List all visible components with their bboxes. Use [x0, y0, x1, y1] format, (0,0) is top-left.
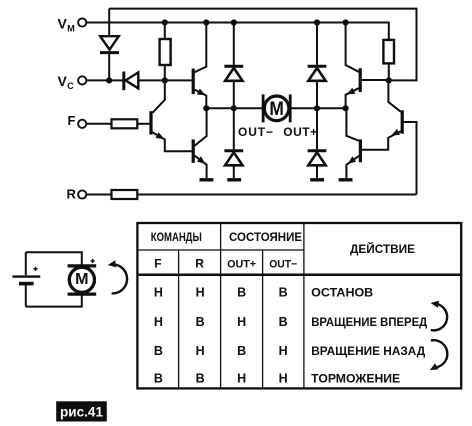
svg-text:ОСТАНОВ: ОСТАНОВ	[311, 285, 373, 299]
terminal VC	[58, 73, 87, 91]
resistor R4 (R input)	[87, 190, 417, 199]
svg-text:F: F	[154, 256, 161, 270]
junction dots VM rail	[162, 19, 349, 25]
table row 3	[154, 344, 288, 358]
motor M1	[206, 94, 345, 122]
resistor R2 (right vertical)	[383, 40, 394, 81]
svg-text:КОМАНДЫ: КОМАНДЫ	[151, 230, 202, 244]
svg-text:В: В	[154, 344, 163, 358]
rotation arrow backward	[430, 340, 448, 370]
svg-text:Н: Н	[279, 371, 288, 385]
svg-text:V: V	[58, 15, 68, 31]
wire VC line left	[87, 79, 123, 81]
ground of T6	[339, 178, 353, 181]
svg-text:Н: Н	[196, 285, 205, 299]
svg-text:Н: Н	[196, 344, 205, 358]
transistor T3 (bottom-left NPN)	[193, 108, 206, 178]
svg-text:В: В	[154, 371, 163, 385]
wire mini loop bottom	[26, 294, 82, 307]
motor M2 (mini circuit)	[68, 259, 97, 294]
transistor T5 (bottom-right small NPN)	[362, 80, 402, 149]
svg-text:рис.41: рис.41	[60, 404, 103, 420]
svg-text:ТОРМОЖЕНИЕ: ТОРМОЖЕНИЕ	[311, 371, 400, 385]
svg-text:F: F	[68, 113, 76, 128]
svg-text:В: В	[237, 285, 246, 299]
table row 4	[154, 371, 288, 385]
svg-text:OUT−: OUT−	[238, 125, 273, 139]
transistor T4 (top-right NPN)	[346, 23, 389, 109]
junction dot node right	[386, 77, 392, 83]
wire zener column bottom	[108, 54, 110, 80]
terminal R	[67, 186, 87, 201]
transistor T1 (top-left NPN)	[193, 23, 206, 109]
svg-text:ВРАЩЕНИЕ НАЗАД: ВРАЩЕНИЕ НАЗАД	[311, 344, 425, 358]
svg-text:ДЕЙСТВИЕ: ДЕЙСТВИЕ	[350, 241, 415, 256]
wire outer top rail	[109, 9, 416, 81]
diode D4 (upper-right catch)	[308, 23, 327, 109]
svg-text:В: В	[279, 285, 288, 299]
diode D3 (upper-left catch)	[224, 23, 243, 109]
diode D6 (lower-right catch)	[308, 108, 327, 178]
junction dots VC line	[106, 77, 168, 83]
terminal VM	[58, 15, 87, 33]
wire mini loop top	[26, 252, 82, 266]
svg-text:M: M	[269, 99, 284, 120]
svg-text:OUT−: OUT−	[269, 258, 297, 270]
svg-text:В: В	[196, 371, 205, 385]
svg-text:M: M	[67, 23, 75, 33]
svg-text:Н: Н	[154, 285, 163, 299]
rotation arrow mini motor	[108, 260, 127, 293]
svg-text:M: M	[75, 271, 88, 288]
svg-text:СОСТОЯНИЕ: СОСТОЯНИЕ	[229, 230, 302, 244]
ground of D5	[227, 178, 241, 181]
svg-text:Н: Н	[237, 371, 246, 385]
rotation arrow forward	[431, 301, 448, 331]
table row 2	[154, 315, 288, 329]
svg-text:В: В	[279, 315, 288, 329]
svg-text:OUT+: OUT+	[227, 258, 256, 270]
junction dots motor line	[203, 105, 349, 111]
svg-text:Н: Н	[154, 315, 163, 329]
diode D5 (lower-left catch)	[224, 108, 243, 178]
zener diode D1	[100, 36, 119, 52]
svg-text:C: C	[67, 81, 74, 91]
diode D2 on VC line	[124, 72, 139, 91]
svg-text:R: R	[195, 256, 204, 270]
wire VM rail	[87, 23, 389, 40]
svg-text:ВРАЩЕНИЕ ВПЕРЕД: ВРАЩЕНИЕ ВПЕРЕД	[311, 315, 427, 329]
table row 1	[154, 285, 288, 299]
table frame	[137, 223, 461, 388]
wire VC line right	[138, 79, 191, 81]
battery B1 (mini circuit)	[12, 252, 40, 306]
svg-text:V: V	[58, 73, 68, 89]
svg-text:Н: Н	[237, 315, 246, 329]
transistor T2 (F small NPN)	[151, 80, 192, 151]
wire R to T5 base	[403, 122, 416, 195]
svg-text:В: В	[196, 315, 205, 329]
svg-text:В: В	[237, 344, 246, 358]
ground of T3	[200, 178, 214, 181]
wire zener column top	[108, 9, 110, 36]
svg-text:OUT+: OUT+	[283, 125, 317, 139]
ground of D6	[310, 178, 324, 181]
resistor R1 (left vertical)	[160, 23, 171, 81]
resistor R3 (F input)	[87, 119, 150, 128]
figure label рис.41	[56, 401, 107, 421]
terminal F	[68, 113, 87, 128]
svg-text:Н: Н	[279, 344, 288, 358]
svg-text:R: R	[67, 186, 77, 201]
transistor T6 (bottom-right big NPN)	[346, 108, 360, 178]
